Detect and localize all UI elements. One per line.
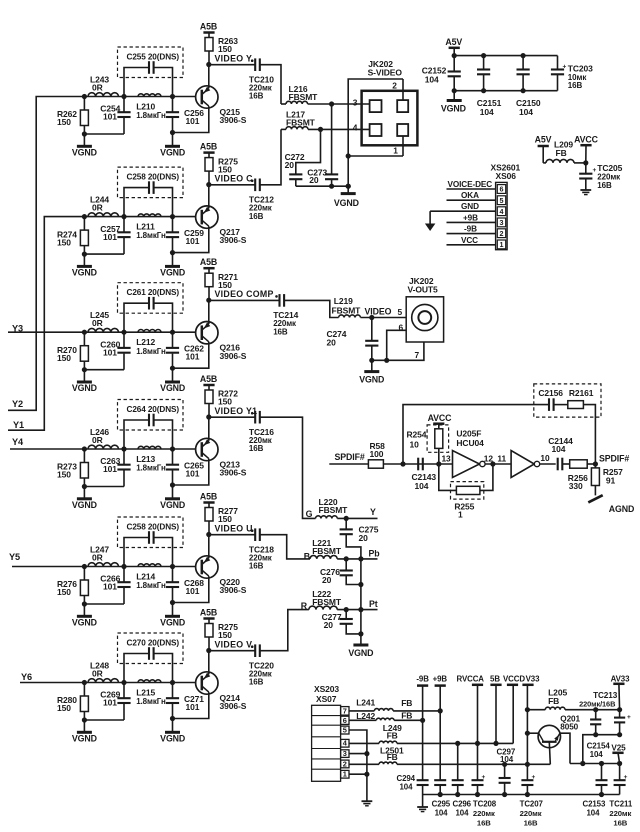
svg-text:Pb: Pb (369, 548, 381, 558)
inductor L244 (88, 213, 118, 217)
wire VIDEO Y to TC210 (209, 64, 255, 66)
label L205 FB (548, 688, 567, 706)
svg-text:-9В: -9В (416, 675, 429, 684)
pin square XS07 3 (341, 749, 349, 758)
inductor L243 (88, 93, 118, 97)
label TC216 value (249, 427, 274, 453)
wire Q215 collector to ground rail (173, 106, 209, 132)
node C262 bottom (170, 366, 175, 371)
label L2501 (380, 745, 404, 755)
wire ground rail bottom (423, 792, 620, 797)
svg-text:A5B: A5B (200, 21, 217, 31)
wire Q220 collector to ground rail (173, 576, 209, 602)
ground VGND outputs (348, 645, 373, 658)
inductor L221 (310, 556, 337, 559)
svg-text:Pt: Pt (369, 599, 378, 609)
node J2 Q213 (121, 446, 126, 451)
label TC220 value (249, 660, 274, 686)
wire TC218 output (260, 535, 310, 559)
wire -9B vertical (422, 686, 424, 780)
label C2153 value (583, 800, 606, 818)
label L2501 FB (387, 752, 398, 762)
svg-text:VGND: VGND (160, 383, 185, 393)
resistor R277 (205, 508, 213, 535)
power VCCD (503, 674, 525, 684)
label L242 FB (401, 710, 412, 720)
transistor Q214 (196, 672, 218, 694)
svg-text:100: 100 (370, 449, 384, 459)
wire L222 to Pt (337, 609, 377, 611)
inductor L248 (88, 679, 118, 683)
capacitor C258 body (124, 181, 173, 216)
svg-text:VIDEO Y1: VIDEO Y1 (215, 406, 258, 416)
svg-text:2: 2 (500, 229, 504, 238)
wire pin 4 to L249 (349, 742, 379, 744)
label C257 value (100, 224, 120, 242)
wire top rail (452, 53, 558, 58)
pin square XS06 2 (497, 229, 505, 238)
wire TC212 output (260, 129, 281, 184)
svg-text:L241: L241 (356, 698, 375, 708)
wire R273 bottom (82, 484, 124, 489)
label C276 value (320, 567, 340, 585)
power AVCC R254 (428, 413, 453, 429)
node Y6 label (21, 672, 32, 682)
svg-text:L215: L215 (136, 687, 155, 697)
ground earth bottom rail (417, 795, 428, 812)
svg-text:150: 150 (57, 117, 71, 127)
svg-text:-9В: -9В (464, 225, 477, 234)
inductor L215 (138, 680, 161, 683)
resistor R256 (570, 460, 588, 468)
label R (301, 601, 308, 611)
power A5B Q214 (200, 607, 217, 623)
capacitor C263 (117, 449, 130, 487)
svg-text:10: 10 (410, 440, 420, 450)
power A5V top (445, 37, 462, 55)
wire Q214 collector to ground rail (173, 692, 209, 718)
node J1 Q217 (82, 214, 87, 219)
resistor R2161 (554, 401, 584, 409)
wire TC216 output (260, 417, 316, 518)
capacitor C294 (417, 780, 429, 794)
wire bottom rail (452, 88, 558, 93)
svg-text:FB: FB (401, 710, 412, 720)
label L220 FBSMT (319, 497, 349, 515)
node Y4 label (12, 437, 24, 447)
svg-text:B: B (304, 551, 310, 561)
ground VGND under C268 (160, 603, 185, 628)
svg-text:20: 20 (359, 533, 369, 543)
svg-text:VGND: VGND (160, 733, 185, 743)
svg-text:101: 101 (186, 702, 200, 712)
label L245 value (90, 310, 109, 328)
capacitor C268 (166, 567, 179, 603)
wire input to Q217 base (8, 217, 196, 431)
capacitor TC218 (251, 528, 260, 541)
wire inverter1 out (485, 461, 511, 466)
svg-text:104: 104 (435, 809, 449, 818)
resistor R275 (205, 624, 213, 651)
wire input to Q216 base (8, 331, 196, 333)
svg-text:0R: 0R (92, 203, 103, 213)
svg-text:20: 20 (327, 337, 337, 347)
svg-text:20: 20 (285, 160, 295, 170)
node C256 bottom (170, 130, 175, 135)
pin 1 stub (346, 136, 403, 159)
wire L220 to Y (337, 517, 377, 519)
svg-text:FB: FB (556, 148, 567, 158)
svg-text:VGND: VGND (72, 267, 97, 277)
svg-text:+: + (593, 167, 597, 174)
ground VGND under C259 (160, 253, 185, 278)
svg-text:101: 101 (103, 698, 117, 708)
wire Q217 collector to ground rail (173, 226, 209, 252)
svg-text:VGND: VGND (334, 198, 359, 208)
capacitor C260 (117, 332, 130, 370)
node SPDIF out (593, 461, 598, 466)
svg-text:VIDEO Y: VIDEO Y (215, 54, 253, 64)
wire rail Pb to Pt (358, 559, 363, 610)
svg-text:SPDIF#: SPDIF# (335, 452, 365, 462)
inductor L214 (138, 564, 161, 567)
capacitor TC212 (251, 179, 260, 192)
svg-text:16В: 16В (249, 212, 264, 221)
label R274 value (57, 229, 77, 247)
svg-text:10: 10 (540, 453, 550, 463)
svg-text:VGND: VGND (72, 733, 97, 743)
pin square XS06 3 (497, 218, 505, 227)
resistor R271 (205, 273, 213, 300)
wire Q216 collector to ground rail (173, 342, 209, 368)
svg-text:16В: 16В (249, 444, 264, 453)
svg-text:A5B: A5B (200, 374, 217, 384)
label TC212 value (249, 194, 274, 220)
svg-text:OKA: OKA (461, 191, 479, 200)
capacitor TC213 (614, 710, 631, 735)
label TC213 value (579, 691, 618, 709)
wire pin 5 to ground (349, 730, 367, 754)
transistor Q213 (196, 438, 218, 460)
inductor L217 (281, 127, 308, 130)
label VIDEO U (215, 524, 253, 534)
label C254 value (100, 104, 120, 122)
node VIDEO Y (206, 62, 211, 67)
svg-text:VGND: VGND (160, 147, 185, 157)
label R277 value (218, 506, 238, 524)
svg-text:3: 3 (343, 749, 347, 758)
svg-text:5: 5 (500, 196, 504, 205)
inductor L245 (88, 328, 118, 332)
wire Q216 emitter up (208, 300, 210, 324)
label C271 value (184, 694, 204, 712)
capacitor C2156 (549, 398, 554, 411)
ground VGND under R262 (72, 134, 97, 157)
svg-text:FBSMT: FBSMT (312, 546, 342, 556)
inductor L220 (316, 516, 338, 519)
node Y2 label (12, 399, 23, 409)
node J2 Q216 (121, 330, 126, 335)
label Q213 type (220, 459, 247, 477)
capacitor C296 (452, 743, 464, 794)
svg-text:A5V: A5V (535, 135, 552, 145)
svg-text:13: 13 (442, 454, 452, 464)
label L247 value (90, 545, 109, 563)
wire input to Q213 base (10, 448, 196, 450)
label C2144 value (548, 436, 573, 454)
inductor L211 (138, 214, 161, 217)
pin 7 label (415, 350, 420, 360)
svg-text:VIDEO U: VIDEO U (215, 524, 253, 534)
svg-text:104: 104 (519, 107, 533, 117)
label SPDIF# input (335, 452, 365, 462)
resistor R275 (205, 158, 213, 185)
wire Q214 emitter up (208, 651, 210, 675)
wire Q213 collector to ground rail (173, 459, 209, 485)
inverter U205 first (453, 451, 486, 478)
wire pin 7 to ground (372, 342, 424, 363)
svg-text:C258 20(DNS): C258 20(DNS) (127, 172, 180, 181)
power 5B (490, 674, 502, 684)
svg-text:11: 11 (497, 454, 506, 464)
pin square XS06 6 (497, 185, 505, 194)
svg-text:104: 104 (500, 755, 514, 764)
pin square 1 (397, 124, 408, 136)
dashed box R254 (427, 425, 449, 452)
inductor L249 (379, 741, 397, 743)
capacitor C2150 (517, 56, 530, 91)
wire R2161 to SPDIF out (583, 405, 595, 464)
power AV33 (611, 674, 630, 709)
capacitor TC211 (614, 764, 628, 795)
wire +9B (447, 213, 496, 222)
label C268 value (184, 578, 204, 596)
label C256 value (184, 108, 204, 126)
label TC210 value (249, 74, 274, 100)
ground VGND under R273 (72, 487, 97, 510)
label G (306, 509, 313, 519)
svg-text:3906-S: 3906-S (220, 235, 247, 245)
wire Q213 emitter up (208, 417, 210, 441)
pin 4 label (353, 122, 358, 132)
svg-text:20: 20 (309, 175, 319, 185)
label C296 value (453, 800, 472, 818)
svg-text:VCC: VCC (461, 236, 478, 245)
svg-text:101: 101 (186, 116, 200, 126)
label R256 value (568, 473, 588, 491)
capacitor C258 (DNS) dashed box (118, 517, 184, 548)
label TC205 value (597, 163, 622, 190)
svg-text:2: 2 (392, 80, 397, 90)
svg-text:101: 101 (186, 236, 200, 246)
svg-text:+9В: +9В (463, 213, 478, 222)
label Q201 type (560, 714, 580, 731)
wire pin 6 to L242 (349, 719, 376, 721)
label L210 value (136, 101, 166, 120)
wire VCCD vertical (512, 685, 514, 744)
svg-text:VGND: VGND (160, 617, 185, 627)
ground AGND TC205 (580, 190, 591, 195)
svg-text:16В: 16В (524, 819, 538, 828)
label R275 value (218, 622, 238, 640)
resistor R274 (80, 217, 88, 255)
node Y3 label (12, 323, 23, 333)
wire OKA (447, 191, 496, 200)
svg-text:VIDEO V: VIDEO V (215, 640, 253, 650)
svg-text:FB: FB (401, 698, 412, 708)
capacitor C258 body (124, 531, 173, 566)
node VIDEO U (206, 532, 211, 537)
ground VGND under R280 (72, 720, 97, 743)
label C275 value (359, 524, 379, 542)
label XS203 XS07 (314, 684, 339, 704)
wire VCCD rail (397, 762, 550, 767)
svg-text:+9В: +9В (433, 675, 448, 684)
svg-text:GND: GND (461, 202, 479, 211)
power A5B Q216 (200, 257, 217, 273)
wire 5B vertical (495, 685, 497, 744)
label C262 value (184, 344, 204, 362)
svg-text:VGND: VGND (72, 500, 97, 510)
svg-text:5: 5 (398, 307, 403, 317)
svg-text:0R: 0R (92, 669, 103, 679)
svg-text:+: + (624, 774, 628, 781)
svg-text:VGND: VGND (348, 648, 373, 658)
label C294 value (397, 774, 416, 792)
label C2143 value (412, 472, 437, 491)
svg-text:R2161: R2161 (569, 388, 594, 398)
svg-text:A5B: A5B (200, 491, 217, 501)
svg-text:L219: L219 (334, 296, 353, 306)
svg-text:C255 20(DNS): C255 20(DNS) (127, 52, 180, 61)
wire RVCCA rail (397, 741, 513, 746)
node J1 Q216 (82, 330, 87, 335)
label VIDEO Y (215, 54, 253, 64)
capacitor C273 (325, 104, 338, 186)
connector XS06 body (496, 182, 508, 249)
label VIDEO C (215, 174, 254, 184)
svg-text:VIDEO: VIDEO (365, 306, 392, 316)
power -9B (416, 675, 429, 686)
transistor Q215 (196, 86, 218, 108)
svg-text:2: 2 (343, 759, 347, 768)
svg-text:104: 104 (415, 481, 429, 491)
ground VGND under C262 (160, 368, 185, 393)
wire L216 to pin 3 (308, 103, 370, 105)
resistor R273 (80, 449, 88, 487)
wire input to Q214 base (20, 682, 196, 684)
node AVCC junction (583, 160, 588, 165)
pin 6 label (399, 323, 404, 333)
capacitor C295 (434, 780, 446, 794)
wire R276 bottom (82, 601, 124, 606)
svg-text:16В: 16В (613, 819, 627, 828)
ground VGND under C256 (160, 133, 185, 158)
svg-text:101: 101 (103, 464, 117, 474)
node VIDEO Y1 (206, 414, 211, 419)
node J3 Q214 (170, 680, 175, 685)
svg-text:16В: 16В (477, 819, 491, 828)
wire pin 2 to L2501 (349, 763, 379, 765)
connector JK202 V-OUT5 body (406, 297, 443, 342)
label R275 value (218, 156, 238, 174)
node VIDEO V (206, 648, 211, 653)
resistor R263 (205, 38, 213, 65)
svg-text:104: 104 (590, 750, 604, 759)
svg-text:Y1: Y1 (13, 420, 24, 430)
capacitor C257 (117, 217, 130, 255)
svg-text:AGND: AGND (609, 504, 635, 514)
wire Q215 emitter up (208, 65, 210, 89)
svg-text:1.8мкГн: 1.8мкГн (136, 581, 166, 590)
wire VIDEO COMP to TC214 (209, 299, 280, 301)
node Y5 label (9, 552, 20, 562)
svg-text:C270 20(DNS): C270 20(DNS) (127, 638, 180, 647)
svg-text:16В: 16В (249, 92, 264, 101)
wire VIDEO Y1 to TC216 (209, 416, 255, 418)
inductor L209 (543, 159, 586, 162)
svg-text:7: 7 (415, 350, 420, 360)
svg-text:L242: L242 (356, 711, 375, 721)
wire pin 3 to ground (349, 751, 370, 756)
label TC218 value (249, 544, 274, 570)
label C270 20(DNS) (127, 638, 180, 647)
label L216 FBSMT (289, 84, 319, 102)
svg-text:V-OUT5: V-OUT5 (408, 285, 438, 295)
svg-text:16В: 16В (597, 181, 612, 190)
ground earth XS07 (362, 801, 373, 806)
pin 5 label (398, 307, 403, 317)
svg-text:101: 101 (103, 347, 117, 357)
capacitor C271 (166, 683, 179, 719)
wire SPDIF input (329, 463, 368, 465)
wire GND (430, 202, 496, 211)
svg-text:101: 101 (103, 112, 117, 122)
svg-text:R254: R254 (407, 430, 427, 440)
wire R274 bottom (82, 252, 124, 257)
inductor L212 (138, 329, 161, 332)
ground VGND under C271 (160, 719, 185, 744)
svg-text:C264 20(DNS): C264 20(DNS) (127, 405, 180, 414)
capacitor C261 (DNS) dashed box (118, 283, 184, 314)
label TC208 value (473, 800, 497, 828)
label R58 value (370, 441, 386, 459)
svg-text:0R: 0R (92, 553, 103, 563)
pin square XS07 4 (341, 739, 349, 748)
node C273 tap (329, 101, 334, 106)
node J3 Q215 (170, 94, 175, 99)
svg-text:V33: V33 (526, 674, 540, 683)
resistor R280 (80, 683, 88, 721)
svg-text:FBSMT: FBSMT (319, 505, 349, 515)
node C272 tap (318, 127, 323, 132)
pin square XS06 1 (497, 240, 505, 249)
pin square 2 (397, 100, 408, 112)
label L243 value (90, 75, 109, 93)
inductor L213 (138, 446, 161, 449)
power AVCC (574, 135, 599, 163)
svg-text:104: 104 (480, 107, 494, 117)
label C2152 value (422, 65, 447, 84)
label L221 FBSMT (312, 538, 342, 556)
label JK202 V-OUT5 (408, 276, 438, 295)
pin square XS07 5 (341, 726, 349, 735)
label C269 value (100, 690, 120, 708)
label Q214 type (220, 693, 247, 711)
label C255 20(DNS) (127, 52, 180, 61)
capacitor C261 body (124, 297, 173, 332)
inductor L219 (339, 315, 361, 318)
